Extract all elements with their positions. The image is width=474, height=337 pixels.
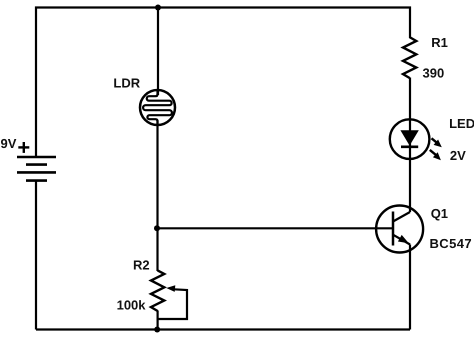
wire base horizontal xyxy=(157,227,393,229)
transistor Q1 xyxy=(376,206,423,253)
wire R2 bottom lead xyxy=(157,311,159,330)
svg-text:Q1: Q1 xyxy=(431,206,448,221)
svg-text:100k: 100k xyxy=(117,297,147,312)
wire LED to R1 column xyxy=(409,78,411,213)
svg-text:LDR: LDR xyxy=(113,75,140,90)
LED D1 xyxy=(390,119,442,160)
node A top junction xyxy=(155,5,161,11)
node B middle junction xyxy=(154,225,160,231)
wire LDR branch upper xyxy=(157,8,159,96)
svg-text:2V: 2V xyxy=(450,148,466,163)
svg-text:R2: R2 xyxy=(133,257,150,272)
svg-text:BC547: BC547 xyxy=(430,236,472,251)
resistor R1 xyxy=(403,37,416,78)
wire left lower xyxy=(35,181,37,330)
wire bottom rail xyxy=(36,328,410,330)
wiper arrow xyxy=(157,285,187,319)
svg-text:390: 390 xyxy=(423,66,445,81)
potentiometer R2 xyxy=(151,270,164,311)
plus sign xyxy=(18,142,29,153)
svg-text:R1: R1 xyxy=(431,35,448,50)
svg-text:LED(: LED( xyxy=(449,116,474,131)
battery B1 9V xyxy=(17,157,56,181)
wire emitter to bottom xyxy=(409,245,411,330)
wire top rail xyxy=(36,8,410,158)
LDR photoresistor xyxy=(140,90,175,125)
wire LDR branch lower xyxy=(156,120,158,271)
node C bottom junction xyxy=(154,327,160,333)
svg-text:9V: 9V xyxy=(1,136,17,151)
